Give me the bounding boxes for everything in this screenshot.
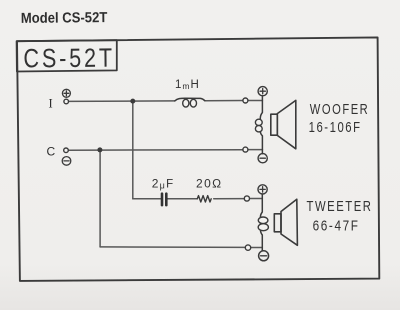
svg-text:Model CS-52T: Model CS-52T — [21, 10, 108, 27]
svg-text:20Ω: 20Ω — [196, 177, 223, 191]
svg-text:1mH: 1mH — [175, 79, 200, 91]
svg-text:WOOFER: WOOFER — [310, 102, 370, 118]
svg-text:TWEETER: TWEETER — [307, 199, 373, 215]
svg-text:66-47F: 66-47F — [313, 219, 360, 235]
svg-text:CS-52T: CS-52T — [23, 43, 115, 74]
svg-text:I: I — [49, 96, 53, 110]
svg-text:16-106F: 16-106F — [309, 120, 362, 136]
svg-text:C: C — [47, 145, 56, 159]
